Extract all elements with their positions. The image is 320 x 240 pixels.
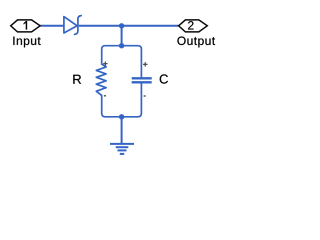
- input port 1: [11, 20, 40, 32]
- capacitor C plates: [132, 77, 152, 79]
- junction node middle: [119, 43, 124, 48]
- resistor plus terminal: [103, 62, 108, 67]
- wire diode to output: [79, 25, 179, 27]
- junction node top: [119, 23, 124, 28]
- wire resistor bottom to junction: [102, 95, 122, 116]
- resistor R: [96, 64, 106, 95]
- capacitor minus terminal: [144, 95, 146, 97]
- output label: [177, 37, 215, 48]
- wire input to diode: [40, 25, 63, 27]
- output port number 2: [188, 21, 193, 29]
- wire to ground: [121, 117, 123, 144]
- wire right branch top to capacitor: [122, 46, 142, 77]
- capacitor label C: [160, 74, 168, 83]
- wire junction down: [121, 26, 123, 46]
- junction node bottom: [119, 114, 124, 119]
- input label: [13, 37, 40, 48]
- resistor label R: [73, 75, 81, 84]
- input port number 1: [24, 21, 27, 29]
- capacitor plus terminal: [143, 62, 148, 67]
- output port 2: [179, 20, 208, 32]
- wire rail to resistor top: [102, 46, 122, 64]
- resistor minus terminal: [104, 95, 106, 97]
- diode D cathode bar: [75, 16, 82, 35]
- diode D triangle: [64, 17, 77, 33]
- ground symbol: [110, 144, 134, 154]
- wire capacitor bottom: [122, 83, 142, 116]
